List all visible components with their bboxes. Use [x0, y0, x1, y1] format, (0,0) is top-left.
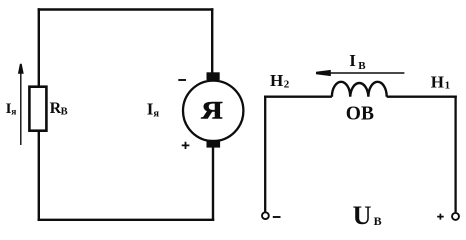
wire field top-left segment [264, 95, 332, 97]
wire field top-right segment [387, 95, 457, 97]
svg-text:В: В [358, 60, 366, 72]
wire field right vertical [454, 96, 456, 213]
svg-text:В: В [61, 107, 68, 118]
svg-text:H: H [270, 71, 283, 90]
terminal minus left [262, 212, 269, 219]
current arrow Iv shaft [322, 72, 404, 74]
svg-text:Я: Я [201, 98, 223, 125]
polarity plus at motor bottom [182, 142, 190, 149]
motor armature circle [183, 81, 243, 141]
polarity minus at motor top [178, 79, 186, 81]
current arrow Iv head [316, 70, 331, 76]
current arrow Ia head [18, 64, 24, 74]
resistor Rv [29, 87, 46, 131]
svg-text:В: В [374, 214, 382, 228]
current arrow Ia shaft [20, 73, 22, 146]
wire left-loop bottom [38, 219, 215, 221]
wire left-loop left side [38, 8, 40, 221]
svg-text:я: я [11, 107, 16, 117]
inductor OV field winding [332, 82, 387, 97]
svg-text:I: I [349, 51, 356, 70]
brush top [207, 72, 220, 80]
svg-text:1: 1 [445, 80, 451, 92]
wire field left vertical [264, 96, 266, 212]
svg-text:U: U [353, 201, 372, 230]
wire left-loop right upper [211, 8, 213, 74]
polarity plus at right terminal [437, 214, 444, 220]
terminal plus right [452, 213, 459, 220]
svg-text:я: я [153, 109, 159, 120]
wire left-loop top [38, 8, 214, 10]
svg-text:2: 2 [284, 79, 290, 91]
svg-text:ОВ: ОВ [346, 104, 374, 125]
svg-text:H: H [431, 72, 444, 91]
polarity minus at left terminal [273, 216, 281, 218]
brush bottom [207, 140, 221, 148]
wire left-loop right lower [212, 146, 214, 221]
